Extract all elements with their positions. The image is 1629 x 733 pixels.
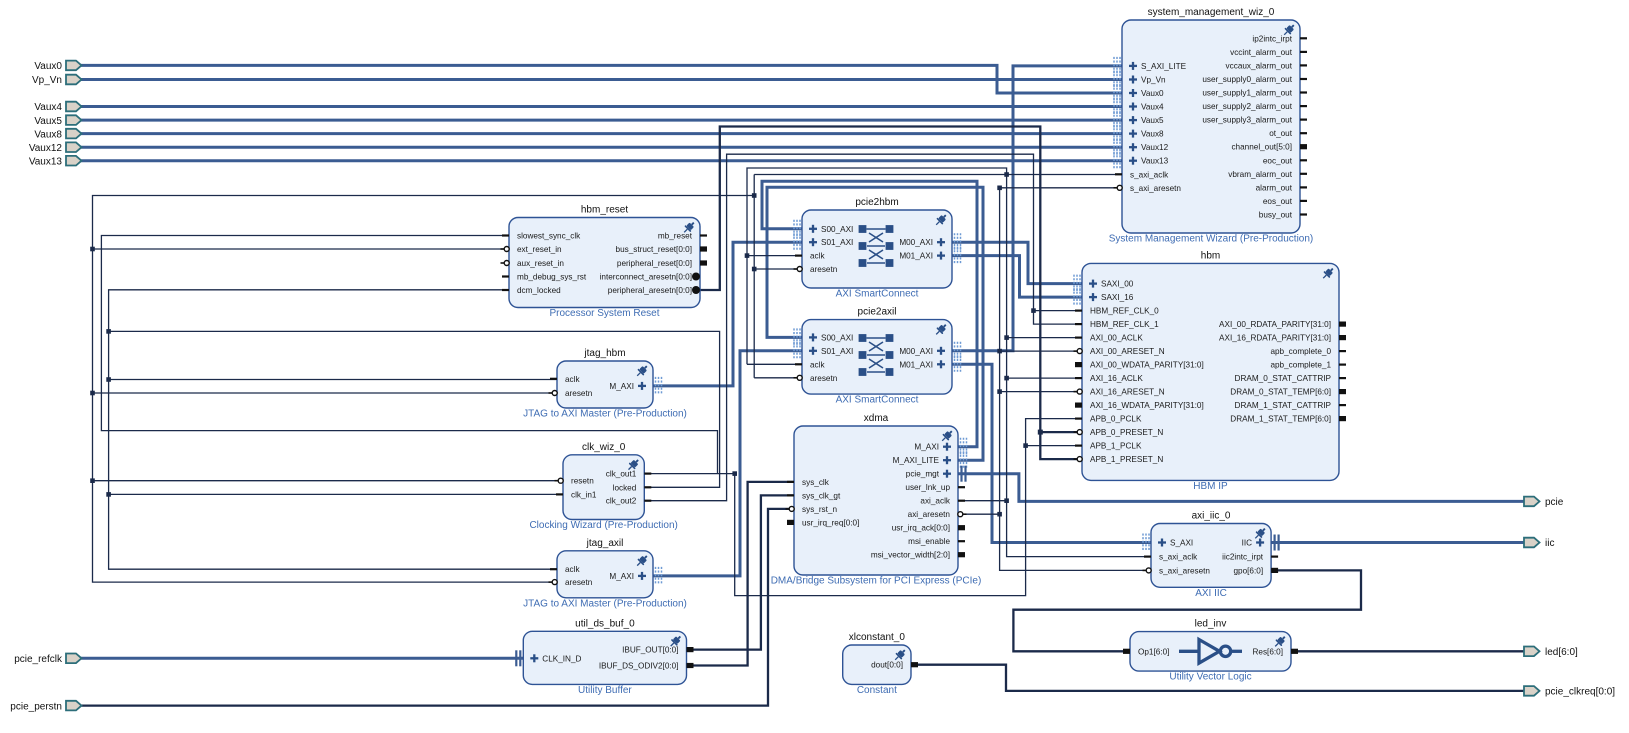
svg-text:S_AXI_LITE: S_AXI_LITE [1141,62,1187,71]
svg-text:AXI_00_WDATA_PARITY[31:0]: AXI_00_WDATA_PARITY[31:0] [1090,361,1204,370]
svg-text:aresetn: aresetn [810,374,838,383]
svg-text:Utility Vector Logic: Utility Vector Logic [1169,672,1251,683]
svg-text:dcm_locked: dcm_locked [517,286,561,295]
svg-text:IIC: IIC [1242,539,1253,548]
svg-text:pcie: pcie [1545,497,1564,508]
svg-text:msi_vector_width[2:0]: msi_vector_width[2:0] [871,551,950,560]
svg-text:led_inv: led_inv [1195,619,1227,630]
svg-text:Vaux12: Vaux12 [1141,143,1169,152]
svg-text:HBM_REF_CLK_0: HBM_REF_CLK_0 [1090,307,1159,316]
svg-text:AXI IIC: AXI IIC [1195,588,1227,599]
wire xdma pcie_mgt to pcie port [958,474,1524,502]
svg-text:aclk: aclk [565,375,580,384]
svg-text:aresetn: aresetn [810,265,838,274]
svg-text:axi_aresetn: axi_aresetn [908,510,951,519]
svg-text:S01_AXI: S01_AXI [821,238,853,247]
svg-text:apb_complete_1: apb_complete_1 [1270,361,1331,370]
svg-text:pcie2hbm: pcie2hbm [855,197,898,208]
wire util IBUF_OUT to xdma sys_clk_gt [687,495,795,649]
svg-text:aresetn: aresetn [565,389,593,398]
svg-text:aresetn: aresetn [565,578,593,587]
svg-text:aclk: aclk [565,565,580,574]
svg-text:Vaux4: Vaux4 [34,102,62,113]
svg-text:axi_aclk: axi_aclk [920,497,950,506]
svg-text:DMA/Bridge Subsystem for PCI E: DMA/Bridge Subsystem for PCI Express (PC… [771,576,982,587]
svg-text:eoc_out: eoc_out [1263,156,1293,165]
svg-text:s_axi_aresetn: s_axi_aresetn [1159,566,1210,575]
svg-text:user_supply1_alarm_out: user_supply1_alarm_out [1202,89,1292,98]
block jtag_axil [557,551,653,598]
block xlconstant_0 [843,645,911,684]
svg-text:hbm: hbm [1201,250,1220,261]
wire pcie2hbm M00_AXI to hbm SAXI_00 [952,242,1082,283]
svg-text:usr_irq_ack[0:0]: usr_irq_ack[0:0] [892,524,950,533]
svg-text:pcie_refclk: pcie_refclk [14,654,63,665]
block axi_iic_0 [1151,524,1271,588]
block util_ds_buf_0 [523,631,686,684]
wire xlconstant dout to pcie_clkreq port [911,665,1524,691]
svg-text:Clocking Wizard (Pre-Productio: Clocking Wizard (Pre-Production) [529,520,677,531]
output port led[6:0] [1524,647,1540,657]
svg-text:System Management Wizard (Pre-: System Management Wizard (Pre-Production… [1109,234,1314,245]
svg-text:APB_0_PCLK: APB_0_PCLK [1090,415,1142,424]
block system_management_wiz_0 [1122,20,1300,233]
svg-text:Vaux5: Vaux5 [34,116,62,127]
wire slowest_sync_clk net [101,236,717,474]
wire left reset loop [93,196,755,583]
svg-text:Vaux12: Vaux12 [29,143,63,154]
svg-text:M_AXI: M_AXI [914,443,939,452]
svg-text:M_AXI: M_AXI [609,382,634,391]
svg-text:Constant: Constant [857,685,897,696]
svg-text:pcie2axil: pcie2axil [858,307,897,318]
svg-text:pcie_mgt: pcie_mgt [906,470,940,479]
wire jtag_hbm M_AXI to pcie2hbm S01_AXI [653,242,802,386]
wire xdma M_AXI to pcie2hbm S00_AXI [762,181,977,446]
output port iic [1524,538,1540,548]
svg-text:M_AXI: M_AXI [609,572,634,581]
svg-text:xlconstant_0: xlconstant_0 [849,632,906,643]
svg-text:Res[6:0]: Res[6:0] [1253,647,1284,656]
svg-text:AXI_00_ARESET_N: AXI_00_ARESET_N [1090,347,1165,356]
wire pcie2axil M00_AXI to S_AXI_LITE [952,66,1122,351]
wire pcie_perstn to xdma sys_rst_n [80,509,794,706]
svg-text:apb_complete_0: apb_complete_0 [1270,347,1331,356]
svg-text:s_axi_aresetn: s_axi_aresetn [1130,184,1181,193]
svg-text:Utility Buffer: Utility Buffer [578,685,632,696]
svg-text:usr_irq_req[0:0]: usr_irq_req[0:0] [802,518,859,527]
wire Vaux12 net [80,146,1122,149]
svg-text:DRAM_0_STAT_TEMP[6:0]: DRAM_0_STAT_TEMP[6:0] [1230,388,1331,397]
svg-text:slowest_sync_clk: slowest_sync_clk [517,232,581,241]
svg-text:SAXI_00: SAXI_00 [1101,280,1134,289]
svg-text:user_supply0_alarm_out: user_supply0_alarm_out [1202,75,1292,84]
block hbm [1082,263,1339,480]
svg-text:Vaux0: Vaux0 [34,61,62,72]
svg-text:user_supply3_alarm_out: user_supply3_alarm_out [1202,116,1292,125]
svg-text:sys_rst_n: sys_rst_n [802,505,837,514]
svg-text:peripheral_reset[0:0]: peripheral_reset[0:0] [617,259,692,268]
svg-text:eos_out: eos_out [1263,197,1293,206]
svg-text:Vaux0: Vaux0 [1141,89,1164,98]
svg-text:Vaux8: Vaux8 [34,129,62,140]
svg-text:iic: iic [1545,538,1554,549]
svg-text:mb_debug_sys_rst: mb_debug_sys_rst [517,273,587,282]
svg-text:IBUF_DS_ODIV2[0:0]: IBUF_DS_ODIV2[0:0] [599,662,679,671]
svg-text:msi_enable: msi_enable [908,537,950,546]
wire axi_iic gpo to led_inv Op1 [1013,570,1361,651]
svg-text:peripheral_aresetn[0:0]: peripheral_aresetn[0:0] [608,286,692,295]
svg-text:led[6:0]: led[6:0] [1545,647,1578,658]
svg-text:S00_AXI: S00_AXI [821,225,853,234]
wire aclk trunk [747,168,1151,557]
wire Vaux5 net [80,119,1122,122]
svg-text:busy_out: busy_out [1259,211,1293,220]
wire aresetn trunk [753,175,755,270]
svg-text:M00_AXI: M00_AXI [899,347,933,356]
svg-text:clk_out2: clk_out2 [606,497,637,506]
svg-text:Vaux13: Vaux13 [1141,157,1169,166]
svg-text:AXI_00_ACLK: AXI_00_ACLK [1090,334,1143,343]
wire Vaux0 net [80,65,1122,93]
svg-text:Vp_Vn: Vp_Vn [1141,76,1166,85]
wire left aclk distribution [109,290,557,569]
svg-text:Op1[6:0]: Op1[6:0] [1138,647,1169,656]
svg-text:DRAM_1_STAT_TEMP[6:0]: DRAM_1_STAT_TEMP[6:0] [1230,415,1331,424]
svg-text:AXI_16_ACLK: AXI_16_ACLK [1090,374,1143,383]
svg-text:alarm_out: alarm_out [1256,183,1293,192]
svg-text:S00_AXI: S00_AXI [821,333,853,342]
svg-text:M01_AXI: M01_AXI [899,360,933,369]
svg-text:HBM IP: HBM IP [1193,481,1228,492]
wire clk_out1 to APB PCLK [644,419,1082,596]
svg-text:HBM_REF_CLK_1: HBM_REF_CLK_1 [1090,320,1159,329]
svg-text:Vp_Vn: Vp_Vn [32,75,62,86]
svg-text:s_axi_aclk: s_axi_aclk [1159,553,1198,562]
svg-text:pcie_clkreq[0:0]: pcie_clkreq[0:0] [1545,687,1615,698]
icon pcie2hbm crossbar [859,225,867,233]
icon led_inv inverter [1179,640,1242,664]
svg-text:clk_wiz_0: clk_wiz_0 [582,442,626,453]
svg-text:APB_1_PCLK: APB_1_PCLK [1090,442,1142,451]
wire peripheral_aresetn to APB PRESET_N [700,127,1082,460]
svg-text:JTAG to AXI Master (Pre-Produc: JTAG to AXI Master (Pre-Production) [523,598,687,609]
svg-text:sys_clk: sys_clk [802,478,830,487]
svg-text:AXI_16_ARESET_N: AXI_16_ARESET_N [1090,388,1165,397]
svg-text:AXI_00_RDATA_PARITY[31:0]: AXI_00_RDATA_PARITY[31:0] [1219,320,1331,329]
icon pcie2axil crossbar [859,334,867,342]
svg-text:ext_reset_in: ext_reset_in [517,245,562,254]
svg-text:SAXI_16: SAXI_16 [1101,293,1134,302]
wire Vp_Vn net [80,78,1122,81]
wire util IBUF_DS_ODIV2 to xdma sys_clk [687,482,795,666]
svg-text:vccaux_alarm_out: vccaux_alarm_out [1226,61,1293,70]
svg-text:S01_AXI: S01_AXI [821,347,853,356]
svg-text:AXI_16_WDATA_PARITY[31:0]: AXI_16_WDATA_PARITY[31:0] [1090,401,1204,410]
svg-text:ip2intc_irpt: ip2intc_irpt [1252,34,1292,43]
wire clk_out2 to HBM REF_CLK [644,154,1082,501]
svg-text:APB_0_PRESET_N: APB_0_PRESET_N [1090,428,1163,437]
svg-text:system_management_wiz_0: system_management_wiz_0 [1148,7,1275,18]
svg-text:M00_AXI: M00_AXI [899,238,933,247]
svg-text:hbm_reset: hbm_reset [581,205,628,216]
svg-text:AXI SmartConnect: AXI SmartConnect [836,289,919,300]
svg-text:DRAM_0_STAT_CATTRIP: DRAM_0_STAT_CATTRIP [1235,374,1332,383]
svg-text:jtag_axil: jtag_axil [586,538,624,549]
svg-text:resetn: resetn [571,477,594,486]
svg-text:AXI SmartConnect: AXI SmartConnect [836,395,919,406]
svg-text:aux_reset_in: aux_reset_in [517,259,564,268]
svg-text:pcie_perstn: pcie_perstn [10,701,62,712]
svg-text:Processor System Reset: Processor System Reset [549,308,659,319]
wire clk_wiz locked to dcm_locked [109,331,720,487]
svg-text:M01_AXI: M01_AXI [899,252,933,261]
svg-text:vccint_alarm_out: vccint_alarm_out [1230,48,1293,57]
wire led_inv Res to led port [1291,650,1524,652]
block pcie2hbm [802,210,952,288]
svg-text:interconnect_aresetn[0:0]: interconnect_aresetn[0:0] [600,273,692,282]
svg-text:jtag_hbm: jtag_hbm [583,348,625,359]
wire pcie_refclk to util_ds_buf CLK_IN_D [80,657,523,660]
block jtag_hbm [557,361,653,408]
svg-text:sys_clk_gt: sys_clk_gt [802,491,841,500]
svg-text:ot_out: ot_out [1269,129,1292,138]
svg-text:vbram_alarm_out: vbram_alarm_out [1228,170,1292,179]
svg-text:IBUF_OUT[0:0]: IBUF_OUT[0:0] [622,646,678,655]
svg-text:clk_out1: clk_out1 [606,470,637,479]
svg-text:DRAM_1_STAT_CATTRIP: DRAM_1_STAT_CATTRIP [1235,401,1332,410]
svg-text:mb_reset: mb_reset [658,232,693,241]
svg-text:clk_in1: clk_in1 [571,490,597,499]
svg-text:Vaux5: Vaux5 [1141,116,1164,125]
svg-text:locked: locked [613,483,637,492]
svg-text:iic2intc_irpt: iic2intc_irpt [1222,553,1264,562]
svg-text:user_lnk_up: user_lnk_up [905,483,950,492]
svg-text:Vaux4: Vaux4 [1141,103,1164,112]
svg-text:axi_iic_0: axi_iic_0 [1192,511,1231,522]
wire Vaux4 net [80,105,1122,108]
svg-text:s_axi_aclk: s_axi_aclk [1130,170,1169,179]
svg-text:channel_out[5:0]: channel_out[5:0] [1231,143,1292,152]
svg-text:Vaux13: Vaux13 [29,156,63,167]
output port pcie [1524,497,1540,507]
wire pcie2hbm M01_AXI to hbm SAXI_16 [952,256,1082,298]
wire pcie2axil M01_AXI to axi_iic S_AXI [952,364,1151,542]
svg-text:aclk: aclk [810,360,825,369]
block clk_wiz_0 [563,455,644,520]
svg-text:util_ds_buf_0: util_ds_buf_0 [575,618,635,629]
svg-text:xdma: xdma [864,413,889,424]
svg-text:gpo[6:0]: gpo[6:0] [1234,566,1264,575]
wire jtag_axil M_AXI to pcie2axil S01_AXI [653,351,802,576]
svg-text:AXI_16_RDATA_PARITY[31:0]: AXI_16_RDATA_PARITY[31:0] [1219,334,1331,343]
svg-text:JTAG to AXI Master (Pre-Produc: JTAG to AXI Master (Pre-Production) [523,409,687,420]
block xdma [794,426,958,575]
block hbm_reset [509,218,700,308]
wire Vaux13 net [80,159,1122,162]
svg-text:APB_1_PRESET_N: APB_1_PRESET_N [1090,455,1163,464]
svg-text:bus_struct_reset[0:0]: bus_struct_reset[0:0] [616,245,692,254]
svg-text:Vaux8: Vaux8 [1141,130,1164,139]
svg-text:M_AXI_LITE: M_AXI_LITE [893,456,940,465]
svg-text:S_AXI: S_AXI [1170,539,1193,548]
svg-text:dout[0:0]: dout[0:0] [871,661,903,670]
wire Vaux8 net [80,132,1122,135]
svg-text:CLK_IN_D: CLK_IN_D [542,654,581,663]
output port pcie_clkreq[0:0] [1524,686,1540,696]
wire axi_iic IIC to iic port [1271,541,1524,544]
svg-text:user_supply2_alarm_out: user_supply2_alarm_out [1202,102,1292,111]
svg-text:aclk: aclk [810,252,825,261]
wire xdma M_AXI_LITE to pcie2axil S00_AXI [767,187,983,460]
block pcie2axil [802,320,952,395]
block led_inv [1130,632,1291,672]
